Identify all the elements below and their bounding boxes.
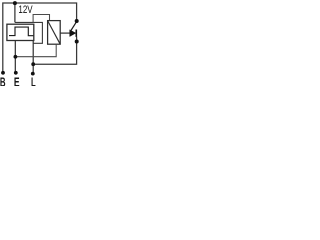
svg-text:E: E <box>14 75 20 86</box>
svg-text:L: L <box>31 75 36 86</box>
svg-text:B: B <box>0 75 6 86</box>
svg-text:12V: 12V <box>18 4 33 16</box>
